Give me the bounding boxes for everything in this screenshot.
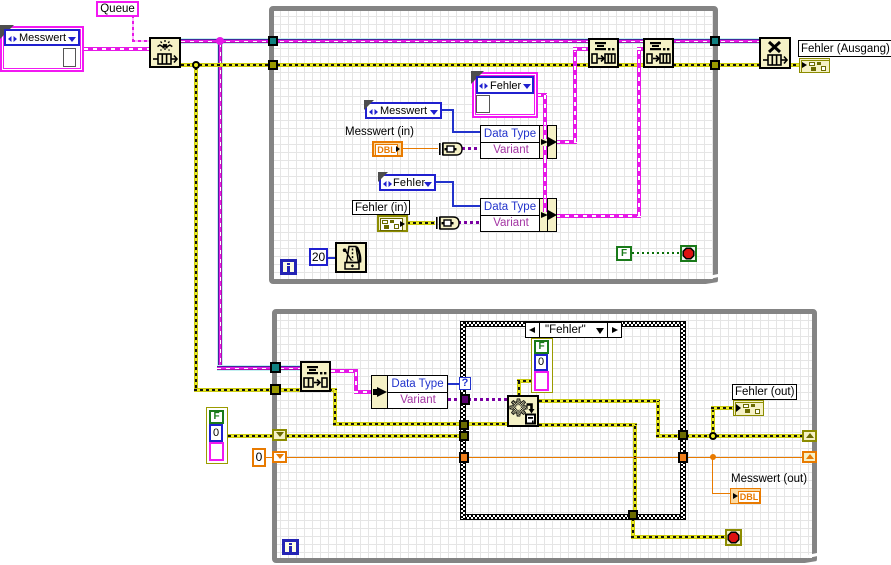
tunnel error loop2 left: [270, 384, 281, 395]
control Messwert combo: [4, 29, 80, 46]
wire: cluster overlay node1 col lower: [543, 146, 547, 159]
Fehler cluster corner fold: [471, 71, 484, 84]
wire: cluster from Fehler constant: [537, 93, 547, 97]
control Messwert (queue refnum) outer frame: [0, 26, 84, 72]
wire: into node 3: [354, 390, 372, 394]
iteration terminal i loop 1: [280, 259, 297, 275]
while loop 2 interior grid: [277, 314, 812, 558]
wire: queue refnum into loop 2: [217, 365, 301, 371]
wire: node 2 output: [556, 214, 641, 218]
enum Messwert corner fold: [364, 100, 374, 110]
conditional terminal stop loop 2: [725, 529, 742, 546]
case selector label "Fehler": [525, 322, 622, 338]
wire: to loop 2 stop terminal: [631, 535, 726, 539]
wire: variant inside case to icon: [468, 398, 507, 401]
function Wait ms (metronome): [335, 242, 367, 273]
constant Queue: [96, 1, 139, 17]
wire: bottom tunnel down: [631, 520, 635, 539]
control Messwert (in) DBL: [372, 141, 403, 157]
enum constant Messwert: [365, 102, 442, 119]
constant error cluster in case: [531, 338, 553, 393]
case structure border top: [460, 321, 686, 327]
function Enqueue Element 1: [588, 38, 619, 68]
label Fehler (out): [732, 384, 797, 400]
wire: Variant-to-Data error out horizontal: [539, 399, 660, 403]
wire: error constant to left shift register: [228, 434, 274, 438]
iteration terminal i loop 2: [282, 539, 299, 555]
function To Variant 2: [435, 216, 460, 230]
loop 1 corner notch: [708, 273, 719, 278]
wire: left shift register error into case: [286, 434, 462, 438]
wire: cluster from Messwert control to Obtain Queue: [84, 47, 150, 51]
case selector terminal ?: [459, 377, 471, 390]
constant 20: [309, 248, 328, 266]
wire: orange down to Messwert (out): [712, 457, 713, 494]
wire: blue node 3 to case selector: [448, 383, 460, 385]
wire: error cluster vertical branch: [194, 67, 198, 388]
wire: orange through case left: [286, 457, 461, 458]
wire: orange through case: [466, 457, 680, 458]
wire: error cluster main horizontal: [181, 63, 799, 67]
wire: error cluster into loop 2: [194, 388, 301, 392]
function Release Queue: [759, 37, 791, 69]
while loop 2 border: [272, 309, 817, 563]
wire: error inside case to Variant-to-Data: [466, 422, 511, 426]
wire: in-case error constant stub: [517, 379, 532, 383]
shift register right error: [802, 430, 817, 442]
tunnel error case bottom: [628, 510, 638, 520]
enum constant Fehler: [379, 174, 436, 191]
wire: queue refnum vertical branch: [217, 44, 223, 371]
junction queue wire: [216, 37, 224, 45]
wire: cluster between node 1 and node 2: [543, 158, 547, 199]
while loop 1 border: [269, 6, 718, 284]
junction orange wire: [710, 454, 716, 460]
tunnel error loop1 left: [268, 60, 278, 70]
wire: variant to node 1: [462, 147, 480, 150]
label Fehler (in): [352, 200, 410, 215]
tunnel error case left 1: [459, 420, 469, 430]
node 1 Data Type / Variant: [480, 125, 557, 159]
wire: lower out vertical to bottom tunnel: [633, 425, 637, 513]
wire: blue enum Fehler to node 2: [436, 181, 454, 183]
wire: into enqueue 2: [637, 47, 645, 51]
wire: error up to Fehler (out) indicator: [711, 406, 715, 436]
constant 0 orange: [252, 448, 266, 467]
junction error wire: [192, 61, 200, 69]
wire: error into Fehler (out) indicator: [711, 406, 734, 410]
tunnel error loop1 right: [710, 60, 720, 70]
label Fehler (Ausgang): [798, 40, 891, 57]
wire: node 2 output up: [637, 47, 641, 216]
enum Fehler corner fold: [378, 172, 388, 182]
label Messwert (out): [731, 473, 807, 485]
conditional terminal stop loop 1: [680, 245, 697, 262]
shift register left orange: [272, 451, 287, 463]
control Fehler (in) error cluster: [377, 215, 408, 232]
node 2 Data Type / Variant: [480, 198, 557, 232]
function Variant To Data: [507, 395, 539, 427]
shift register right orange: [802, 451, 817, 463]
tunnel error case right: [678, 430, 688, 440]
wire: error from dequeue to case tunnel: [333, 422, 463, 426]
wire: queue refnum main horizontal: [181, 38, 759, 44]
wire: node 1 output: [556, 140, 577, 144]
case structure border right: [680, 321, 686, 520]
function Enqueue Element 2: [643, 38, 674, 68]
while loop 1 interior grid: [274, 11, 713, 279]
wire: into enqueue 1: [573, 47, 589, 51]
wire: error from dequeue vertical: [333, 390, 337, 426]
label Messwert (in): [345, 126, 414, 138]
wire: string into Obtain Queue: [132, 40, 150, 42]
wire: 0 constant to orange shift register: [265, 457, 273, 458]
tunnel queue loop1 right: [710, 36, 720, 46]
wire: in-case error constant down into icon: [517, 381, 521, 396]
wire: error case tunnel to right shift register: [686, 434, 804, 438]
case structure border left: [460, 321, 466, 520]
control Messwert corner fold: [0, 25, 14, 39]
constant error cluster left of loop 2: [206, 407, 228, 464]
wire: error out vertical jog: [656, 401, 660, 438]
control Messwert element box: [63, 48, 76, 67]
loop 2 corner notch: [807, 552, 818, 557]
constant Fehler cluster (magenta framed): [472, 72, 538, 118]
constant F loop 1: [616, 246, 632, 261]
wire: cluster down into node 1: [543, 95, 547, 126]
junction error wire right: [709, 432, 717, 440]
wire: dequeue output: [331, 369, 358, 373]
indicator Messwert (out) DBL: [730, 488, 761, 504]
function Dequeue Element: [300, 361, 331, 392]
function To Variant 1: [438, 142, 463, 156]
wire: string from Queue constant down: [132, 16, 134, 42]
wire: orange to right shift register: [686, 457, 803, 458]
wire: blue enum Messwert to node 1: [442, 109, 454, 111]
Fehler cluster element box: [476, 95, 490, 113]
wire: dequeue output down: [354, 369, 358, 394]
indicator Fehler (out) error cluster: [733, 400, 764, 416]
wire: cluster overlay node1 col upper: [543, 125, 547, 139]
tunnel variant case left: [460, 394, 470, 405]
wire: Variant-to-Data lower out: [539, 423, 637, 427]
node 3 Data Type / Variant: [371, 375, 448, 409]
case structure border bottom: [460, 514, 686, 520]
wire: node 1 output up: [573, 47, 577, 142]
tunnel orange case right: [678, 452, 688, 463]
wire: error control to to-variant: [407, 221, 435, 225]
wire: error from dequeue stub: [329, 388, 337, 392]
wire: orange DBL to to-variant: [403, 148, 438, 149]
Fehler cluster combo: [476, 76, 534, 94]
wire: variant node 3 to case tunnel: [448, 398, 462, 401]
wire: blue 20 to wait: [327, 257, 335, 259]
function Obtain Queue: [149, 37, 181, 68]
tunnel queue loop1 left: [268, 36, 278, 46]
shift register left error: [272, 429, 287, 441]
tunnel error case left 2: [459, 431, 469, 441]
tunnel orange case left: [459, 452, 469, 463]
indicator Fehler (Ausgang) error cluster: [799, 58, 830, 73]
wire: variant to node 2: [458, 221, 480, 224]
case structure interior grid: [466, 327, 680, 513]
wire: error out to case right tunnel: [656, 434, 682, 438]
wire: orange into DBL indicator: [712, 493, 731, 494]
wire: green F to loop 1 stop: [632, 252, 680, 254]
tunnel queue loop2 left: [270, 362, 281, 373]
wire: cluster overlay node2 col upper: [543, 198, 547, 212]
